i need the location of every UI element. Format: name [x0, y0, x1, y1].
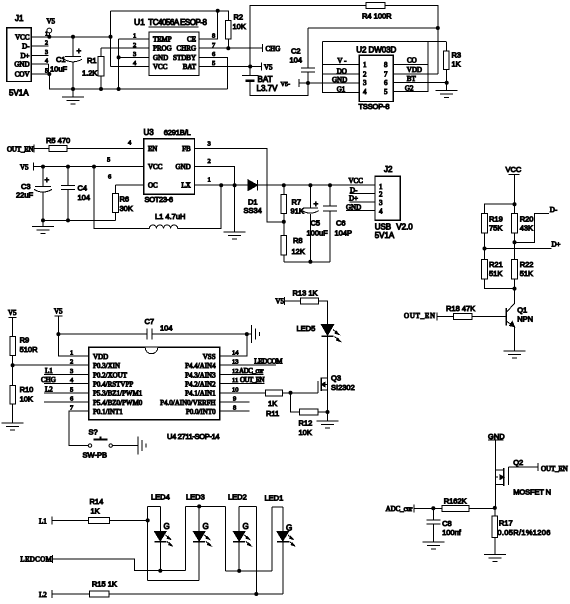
svg-text:10K: 10K — [233, 22, 246, 31]
svg-text:C2: C2 — [291, 47, 301, 56]
node L1 to LX — [219, 183, 223, 187]
resistor R12 10K — [299, 409, 328, 437]
svg-text:OUT_EN: OUT_EN — [541, 465, 568, 473]
ground under C8 — [422, 542, 444, 549]
svg-text:R17: R17 — [499, 519, 513, 528]
port OUT_EN left — [7, 145, 34, 154]
svg-text:TC4056A ESOP-8: TC4056A ESOP-8 — [148, 18, 207, 27]
svg-text:8: 8 — [233, 405, 236, 412]
resistor R8 12K — [281, 222, 305, 262]
switch S? SW-PB — [83, 428, 139, 460]
node R12/Q3 source — [326, 410, 330, 414]
resistor R18 47K — [437, 304, 506, 319]
port V5 at U4 VDD — [54, 308, 63, 335]
resistor R3 1K — [444, 42, 462, 83]
node R1 bottom — [99, 87, 103, 91]
svg-text:3: 3 — [45, 50, 48, 56]
resistor R14 1K — [52, 497, 148, 523]
wire J2 pin3 stub — [350, 201, 376, 203]
wire gate to Q3 — [291, 392, 319, 394]
svg-text:VCC: VCC — [506, 165, 522, 174]
svg-text:G: G — [243, 522, 249, 531]
wire V5 to C7 — [58, 333, 147, 335]
wire TEMP/GND riser — [119, 39, 149, 89]
svg-text:7: 7 — [384, 71, 388, 79]
wire LEDCOM to LED rail — [53, 559, 186, 571]
svg-text:V2.0: V2.0 — [396, 223, 413, 232]
capacitor C3 22uF — [16, 167, 52, 221]
connector J2 USB — [375, 165, 414, 240]
svg-text:R20: R20 — [520, 215, 534, 224]
svg-text:R21: R21 — [489, 260, 503, 269]
wire V5 rail — [48, 36, 110, 38]
svg-text:R10: R10 — [20, 385, 34, 394]
svg-text:CHG: CHG — [41, 376, 56, 384]
svg-text:4: 4 — [379, 207, 383, 215]
wire pin9 stub — [220, 401, 250, 403]
svg-text:75K: 75K — [489, 224, 502, 233]
svg-text:8: 8 — [212, 33, 215, 40]
svg-text:P4.2/AIN2: P4.2/AIN2 — [185, 381, 216, 389]
diode D1 SS34 — [244, 180, 262, 215]
svg-text:+: + — [314, 200, 319, 209]
svg-text:2: 2 — [45, 41, 48, 47]
svg-text:10: 10 — [232, 386, 239, 393]
svg-text:STDBY: STDBY — [173, 54, 196, 62]
svg-text:LED1: LED1 — [265, 494, 284, 503]
svg-text:FB: FB — [182, 145, 191, 153]
wire GND to ground — [195, 167, 235, 232]
resistor R13 1K — [284, 289, 327, 325]
resistor R7 91K — [281, 185, 304, 222]
node LED3 anode bar — [197, 504, 201, 508]
wire DO stub — [323, 73, 360, 75]
svg-text:C7: C7 — [145, 317, 155, 326]
wire D1 to output row — [258, 184, 376, 186]
wire CHRG row to CHG port — [199, 47, 263, 49]
wire G2 riser — [393, 42, 428, 92]
svg-text:5V1A: 5V1A — [9, 88, 29, 97]
resistor R6 30K — [113, 185, 133, 221]
svg-text:12K: 12K — [292, 247, 305, 256]
svg-text:L1: L1 — [39, 517, 47, 525]
svg-text:2: 2 — [70, 359, 73, 366]
wire LED3 spare leg to LED2 rail — [225, 570, 272, 572]
node R9/R10 to pin2 — [11, 363, 15, 367]
svg-text:1: 1 — [363, 61, 367, 69]
ground under R3 — [436, 83, 458, 98]
node C3 top — [41, 165, 45, 169]
svg-text:+: + — [45, 176, 50, 185]
resistor R4 100R — [362, 3, 392, 21]
wire BAT row to V5 port — [199, 66, 262, 68]
svg-text:TSSOP-8: TSSOP-8 — [359, 102, 390, 111]
port V5 top (circle) — [47, 18, 56, 37]
capacitor C1 10uF — [50, 37, 82, 89]
node C6 top — [328, 183, 332, 187]
port L2 — [39, 590, 52, 599]
wire CO row to G2 riser — [393, 63, 428, 65]
wire pin3 stub with net L1 — [44, 367, 89, 375]
node V5- / C2 bottom — [306, 81, 310, 85]
svg-text:S?: S? — [89, 428, 98, 437]
svg-text:43K: 43K — [520, 224, 533, 233]
wire LX row — [195, 184, 249, 186]
IC U2 DW03D — [356, 46, 396, 111]
wire OUT_EN to R5 — [34, 147, 49, 149]
LED5 — [297, 324, 341, 342]
svg-text:+: + — [77, 47, 82, 56]
node R21/R22/collector — [513, 287, 517, 291]
svg-text:VDD: VDD — [407, 66, 422, 74]
wire OC to R6 — [116, 184, 144, 186]
svg-text:P4.1/AIN1: P4.1/AIN1 — [185, 390, 216, 398]
svg-text:30K: 30K — [120, 204, 133, 213]
node VCC/R19/R20 — [513, 202, 517, 206]
wire D+ row — [485, 241, 561, 249]
ground under U3 GND — [224, 232, 246, 239]
node BT/R3 — [445, 81, 449, 85]
svg-text:1.2K: 1.2K — [82, 69, 97, 78]
node C1 bottom / ground — [71, 87, 75, 91]
svg-text:SI2302: SI2302 — [331, 383, 355, 392]
port V5- — [281, 79, 308, 88]
node R14/LED4 — [146, 518, 150, 522]
svg-text:V5: V5 — [275, 297, 284, 305]
wire GND row to U1 — [119, 56, 149, 58]
wire U2 V- riser — [322, 42, 324, 65]
svg-text:5: 5 — [107, 157, 110, 164]
wire LED4 left leg to LED3 cathode — [148, 579, 200, 581]
node R2 bottom on CHRG row — [226, 46, 230, 50]
svg-text:GND: GND — [488, 432, 505, 441]
svg-text:104P: 104P — [335, 229, 353, 238]
node R11/gate — [289, 391, 293, 395]
wire CE riser — [199, 11, 218, 39]
svg-text:LEDCOM: LEDCOM — [254, 358, 283, 366]
svg-text:R15 1K: R15 1K — [92, 580, 117, 589]
wire J2 pin2 stub — [350, 193, 376, 195]
wire R4 right to VDD riser — [385, 6, 438, 75]
svg-text:PROG: PROG — [153, 45, 172, 53]
svg-text:1K: 1K — [268, 399, 277, 408]
wire pin8 stub — [220, 410, 250, 412]
wire to R19 — [485, 204, 515, 213]
svg-text:R3: R3 — [452, 51, 462, 60]
svg-text:L2: L2 — [39, 591, 47, 599]
wire R5 to U3 EN — [67, 147, 144, 149]
resistor R15 1K — [52, 580, 283, 597]
wire to U4 P0.3/XIN — [13, 364, 89, 366]
wire COV down to ground rail — [49, 74, 227, 89]
svg-text:Q3: Q3 — [331, 374, 341, 383]
svg-text:5: 5 — [70, 386, 73, 393]
svg-text:U3: U3 — [144, 128, 155, 137]
node C4 bottom — [66, 218, 70, 222]
node C3 bottom — [41, 218, 45, 222]
port V5 at R13 — [275, 297, 284, 305]
port LEDCOM — [20, 555, 52, 564]
svg-text:2: 2 — [363, 71, 367, 79]
svg-text:10K: 10K — [299, 428, 312, 437]
wire pin13 stub with net LEDCOM — [220, 358, 284, 366]
svg-text:R2: R2 — [234, 13, 244, 22]
wire pin10 to R11 — [220, 392, 266, 394]
resistor R17 0.05R — [492, 508, 550, 555]
svg-text:LED5: LED5 — [297, 324, 316, 333]
svg-text:100uF: 100uF — [307, 229, 329, 238]
port CHG — [263, 44, 281, 53]
port V5 mid-left — [20, 163, 34, 172]
svg-text:104: 104 — [78, 193, 91, 202]
node R19/R21/D+ — [483, 247, 487, 251]
node V5/VCC rail — [47, 35, 51, 39]
svg-text:P0.4/RSTVPP: P0.4/RSTVPP — [93, 381, 133, 389]
svg-text:C5: C5 — [311, 219, 321, 228]
wire C5/C6 bottom rail — [284, 261, 330, 263]
node R20 bottom / D- — [513, 240, 517, 244]
wire R1 top to U1 PROG — [101, 47, 149, 49]
node BAT row — [248, 65, 252, 69]
svg-text:14: 14 — [232, 350, 239, 357]
svg-text:TEMP: TEMP — [153, 36, 172, 44]
svg-text:L1 4.7uH: L1 4.7uH — [155, 212, 185, 221]
node Q2 source / R17 — [493, 506, 497, 510]
svg-text:3: 3 — [133, 51, 136, 58]
node C5 bottom — [308, 260, 312, 264]
svg-text:R14: R14 — [90, 497, 104, 506]
svg-text:P4.3/AIN3: P4.3/AIN3 — [185, 371, 216, 379]
svg-text:D+: D+ — [552, 241, 561, 249]
wire STDBY loop — [199, 57, 228, 89]
svg-text:LX: LX — [181, 182, 190, 190]
inductor L1 4.7uH — [149, 185, 221, 228]
svg-text:8: 8 — [384, 61, 388, 69]
resistor R10 10K — [10, 385, 34, 423]
power GND at Q2 — [488, 432, 505, 470]
wire R4 loop riser — [250, 6, 366, 67]
wire C7 to VSS — [152, 333, 247, 335]
ground under Q1 — [504, 351, 526, 358]
resistor R5 470 — [46, 136, 70, 151]
svg-text:P0.2/XOUT: P0.2/XOUT — [93, 371, 128, 379]
wire FB loop — [195, 148, 284, 221]
node C4 top — [66, 165, 70, 169]
svg-text:NPN: NPN — [517, 315, 533, 324]
resistor R19 75K — [482, 214, 503, 249]
ground under R10 — [2, 423, 24, 430]
svg-text:R12: R12 — [299, 419, 313, 428]
ground under Q3 — [317, 412, 339, 428]
svg-text:2: 2 — [208, 158, 211, 165]
svg-text:V5: V5 — [264, 63, 273, 71]
svg-text:R7: R7 — [292, 198, 302, 207]
svg-text:J1: J1 — [15, 14, 24, 23]
svg-text:V5: V5 — [20, 164, 29, 172]
svg-text:V5: V5 — [54, 308, 63, 316]
wire pin6 stub — [44, 401, 89, 403]
svg-text:R11: R11 — [266, 409, 279, 418]
node GND riser crossing — [233, 183, 237, 187]
svg-text:MOSFET N: MOSFET N — [513, 488, 551, 497]
svg-text:9: 9 — [233, 396, 236, 403]
wire ADC_cur to R16 — [414, 507, 442, 509]
node C5 top — [308, 183, 312, 187]
svg-text:BAT: BAT — [258, 75, 273, 84]
svg-text:R5 470: R5 470 — [46, 136, 70, 145]
svg-text:P0.0/INT0: P0.0/INT0 — [186, 408, 216, 416]
svg-text:R162K: R162K — [444, 496, 467, 505]
svg-text:104: 104 — [290, 56, 303, 65]
svg-text:5V1A: 5V1A — [375, 231, 395, 240]
svg-text:CO: CO — [407, 57, 417, 65]
svg-text:GND: GND — [14, 61, 29, 69]
wire pin4 stub with net CHG — [41, 376, 89, 384]
wire D- — [515, 206, 558, 242]
wire pin11 stub with net OUT_EN — [220, 376, 265, 384]
wire J2 pin4 stub — [346, 209, 375, 211]
svg-text:2: 2 — [133, 42, 136, 49]
port V5 near battery — [262, 63, 274, 72]
resistor R2 10K — [226, 11, 246, 48]
svg-text:R22: R22 — [520, 260, 534, 269]
capacitor C7 104 — [145, 317, 173, 340]
svg-text:4: 4 — [363, 88, 367, 96]
svg-text:C4: C4 — [78, 184, 88, 193]
svg-text:510R: 510R — [20, 345, 39, 354]
node J1 pin5 — [47, 72, 51, 76]
node bottom rail riser — [117, 87, 121, 91]
IC U1 TC4056A — [133, 17, 216, 76]
svg-text:4: 4 — [45, 59, 48, 65]
svg-text:3: 3 — [363, 79, 367, 87]
svg-text:R4 100R: R4 100R — [362, 12, 392, 21]
connector J1 — [7, 14, 49, 97]
svg-text:Q2: Q2 — [513, 458, 523, 467]
svg-text:VCC: VCC — [349, 177, 364, 185]
capacitor C2 104 — [290, 28, 316, 83]
svg-text:11: 11 — [232, 377, 238, 384]
battery BAT L3.7V — [242, 67, 308, 96]
svg-text:R18 47K: R18 47K — [446, 304, 475, 313]
wire L1 feed riser — [94, 167, 149, 229]
svg-text:22uF: 22uF — [16, 191, 34, 200]
wire pin5 stub with net L2 — [44, 385, 89, 393]
svg-text:1K: 1K — [452, 60, 461, 69]
svg-text:GND: GND — [176, 163, 191, 171]
ground sideways at switch — [138, 437, 146, 455]
svg-text:GND: GND — [153, 54, 168, 62]
IC U4 2711-SOP-14 — [70, 347, 239, 441]
svg-text:L1: L1 — [45, 367, 53, 375]
ground under R17 — [484, 555, 506, 562]
svg-text:5: 5 — [384, 88, 388, 96]
wire VDD riser to pin1 — [58, 334, 88, 356]
node V5 rail to U1 riser — [109, 35, 113, 39]
node FB/R7/R8 — [282, 220, 286, 224]
node LED2 right leg on L2 rail — [254, 592, 258, 596]
svg-text:SS34: SS34 — [244, 206, 262, 215]
svg-text:U1: U1 — [134, 17, 145, 27]
svg-text:LED2: LED2 — [228, 492, 247, 501]
wire VDD row — [393, 73, 437, 75]
svg-text:C8: C8 — [442, 519, 452, 528]
wire J1 GND pin4 down to COV pin5 — [47, 64, 49, 74]
port OUT_EN at R18 — [404, 312, 437, 321]
svg-text:3: 3 — [208, 141, 211, 148]
resistor R21 51K — [482, 249, 515, 289]
svg-text:P5.4/BZ0/PWM0: P5.4/BZ0/PWM0 — [93, 399, 143, 407]
svg-text:COV: COV — [15, 71, 30, 79]
svg-text:3: 3 — [70, 368, 73, 375]
svg-text:P4.4/AIN4: P4.4/AIN4 — [185, 362, 216, 370]
svg-text:BT: BT — [407, 75, 417, 83]
svg-text:LED4: LED4 — [151, 492, 170, 501]
port L1 — [39, 516, 52, 525]
port ADC_cur — [386, 504, 414, 513]
svg-text:CHG: CHG — [266, 45, 281, 53]
svg-text:VSS: VSS — [203, 353, 216, 361]
node VDD branch — [56, 332, 60, 336]
svg-text:6: 6 — [384, 79, 388, 87]
svg-text:USB: USB — [375, 223, 391, 232]
resistor R1 1.2K — [82, 48, 104, 89]
svg-text:D-: D- — [22, 43, 30, 51]
wire collector — [514, 289, 516, 304]
LED4 — [148, 492, 173, 580]
wire U2 V- wrap to G1 — [323, 64, 360, 92]
svg-text:L2: L2 — [45, 385, 53, 393]
svg-text:VDD: VDD — [93, 353, 108, 361]
wire VSS riser to pin14 — [220, 334, 247, 356]
resistor R9 510R — [10, 336, 38, 386]
svg-text:D-: D- — [550, 206, 558, 214]
node top rail / CE riser — [216, 9, 220, 13]
svg-text:13: 13 — [232, 359, 239, 366]
svg-text:VCC: VCC — [148, 163, 163, 171]
svg-text:CE: CE — [187, 36, 196, 44]
LED2 — [228, 492, 256, 594]
node VDD riser / C2 rail — [436, 26, 440, 30]
svg-text:1: 1 — [70, 350, 73, 357]
node L1 tap — [92, 165, 96, 169]
svg-text:104: 104 — [160, 324, 173, 333]
svg-text:12: 12 — [232, 368, 239, 375]
svg-text:J2: J2 — [384, 165, 393, 174]
LED1 — [265, 494, 295, 595]
wire U2 top rail B — [323, 41, 446, 43]
svg-text:R6: R6 — [120, 195, 130, 204]
svg-text:1: 1 — [133, 33, 136, 40]
svg-text:R8: R8 — [293, 236, 303, 245]
resistor R20 43K — [512, 204, 534, 259]
wire pin7 to switch — [69, 411, 89, 445]
svg-text:ADC_cur: ADC_cur — [239, 367, 264, 375]
svg-text:10uF: 10uF — [50, 65, 68, 74]
svg-text:VCC: VCC — [15, 33, 30, 41]
svg-text:P5.3/BZ1/PWM1: P5.3/BZ1/PWM1 — [93, 390, 143, 398]
transistor Q1 NPN — [506, 303, 533, 351]
svg-text:SOT23-6: SOT23-6 — [145, 195, 174, 204]
svg-text:100nf: 100nf — [442, 528, 462, 537]
node C1 top — [71, 35, 75, 39]
port V5 at R9 — [8, 309, 17, 336]
svg-text:VCC: VCC — [153, 63, 168, 71]
svg-text:P4.0/AIN0/VERFH: P4.0/AIN0/VERFH — [160, 399, 215, 407]
svg-text:OUT_EN: OUT_EN — [7, 146, 34, 154]
svg-text:1K: 1K — [91, 507, 100, 516]
capacitor C4 104 — [61, 167, 90, 221]
